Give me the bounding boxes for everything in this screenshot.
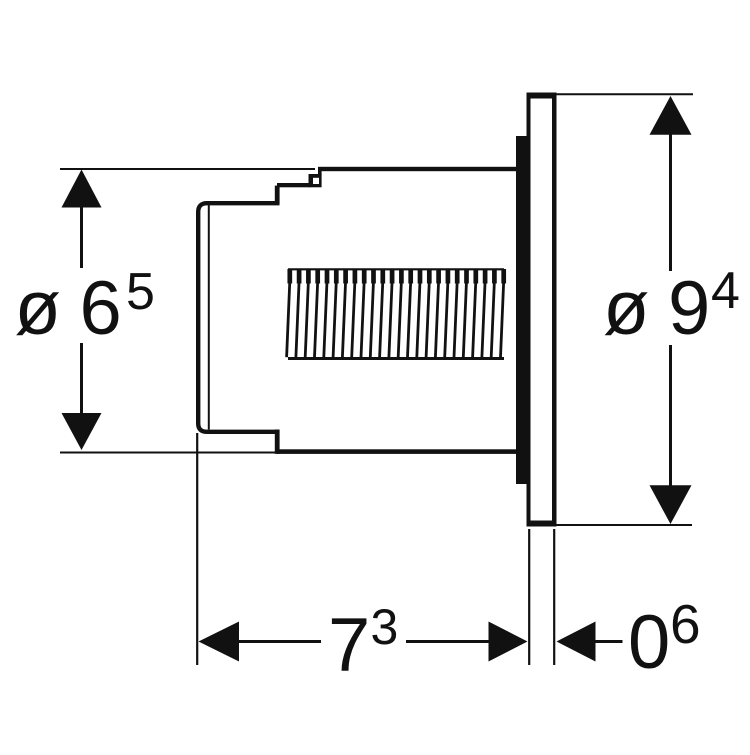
svg-text:ø: ø: [603, 266, 649, 351]
svg-text:6: 6: [670, 593, 701, 655]
svg-text:0: 0: [628, 600, 670, 685]
svg-text:5: 5: [126, 263, 155, 321]
svg-text:ø: ø: [15, 266, 61, 351]
svg-text:7: 7: [328, 603, 370, 688]
svg-text:3: 3: [371, 599, 399, 655]
svg-text:9: 9: [668, 266, 710, 351]
svg-text:6: 6: [80, 266, 122, 351]
svg-text:4: 4: [711, 262, 740, 320]
